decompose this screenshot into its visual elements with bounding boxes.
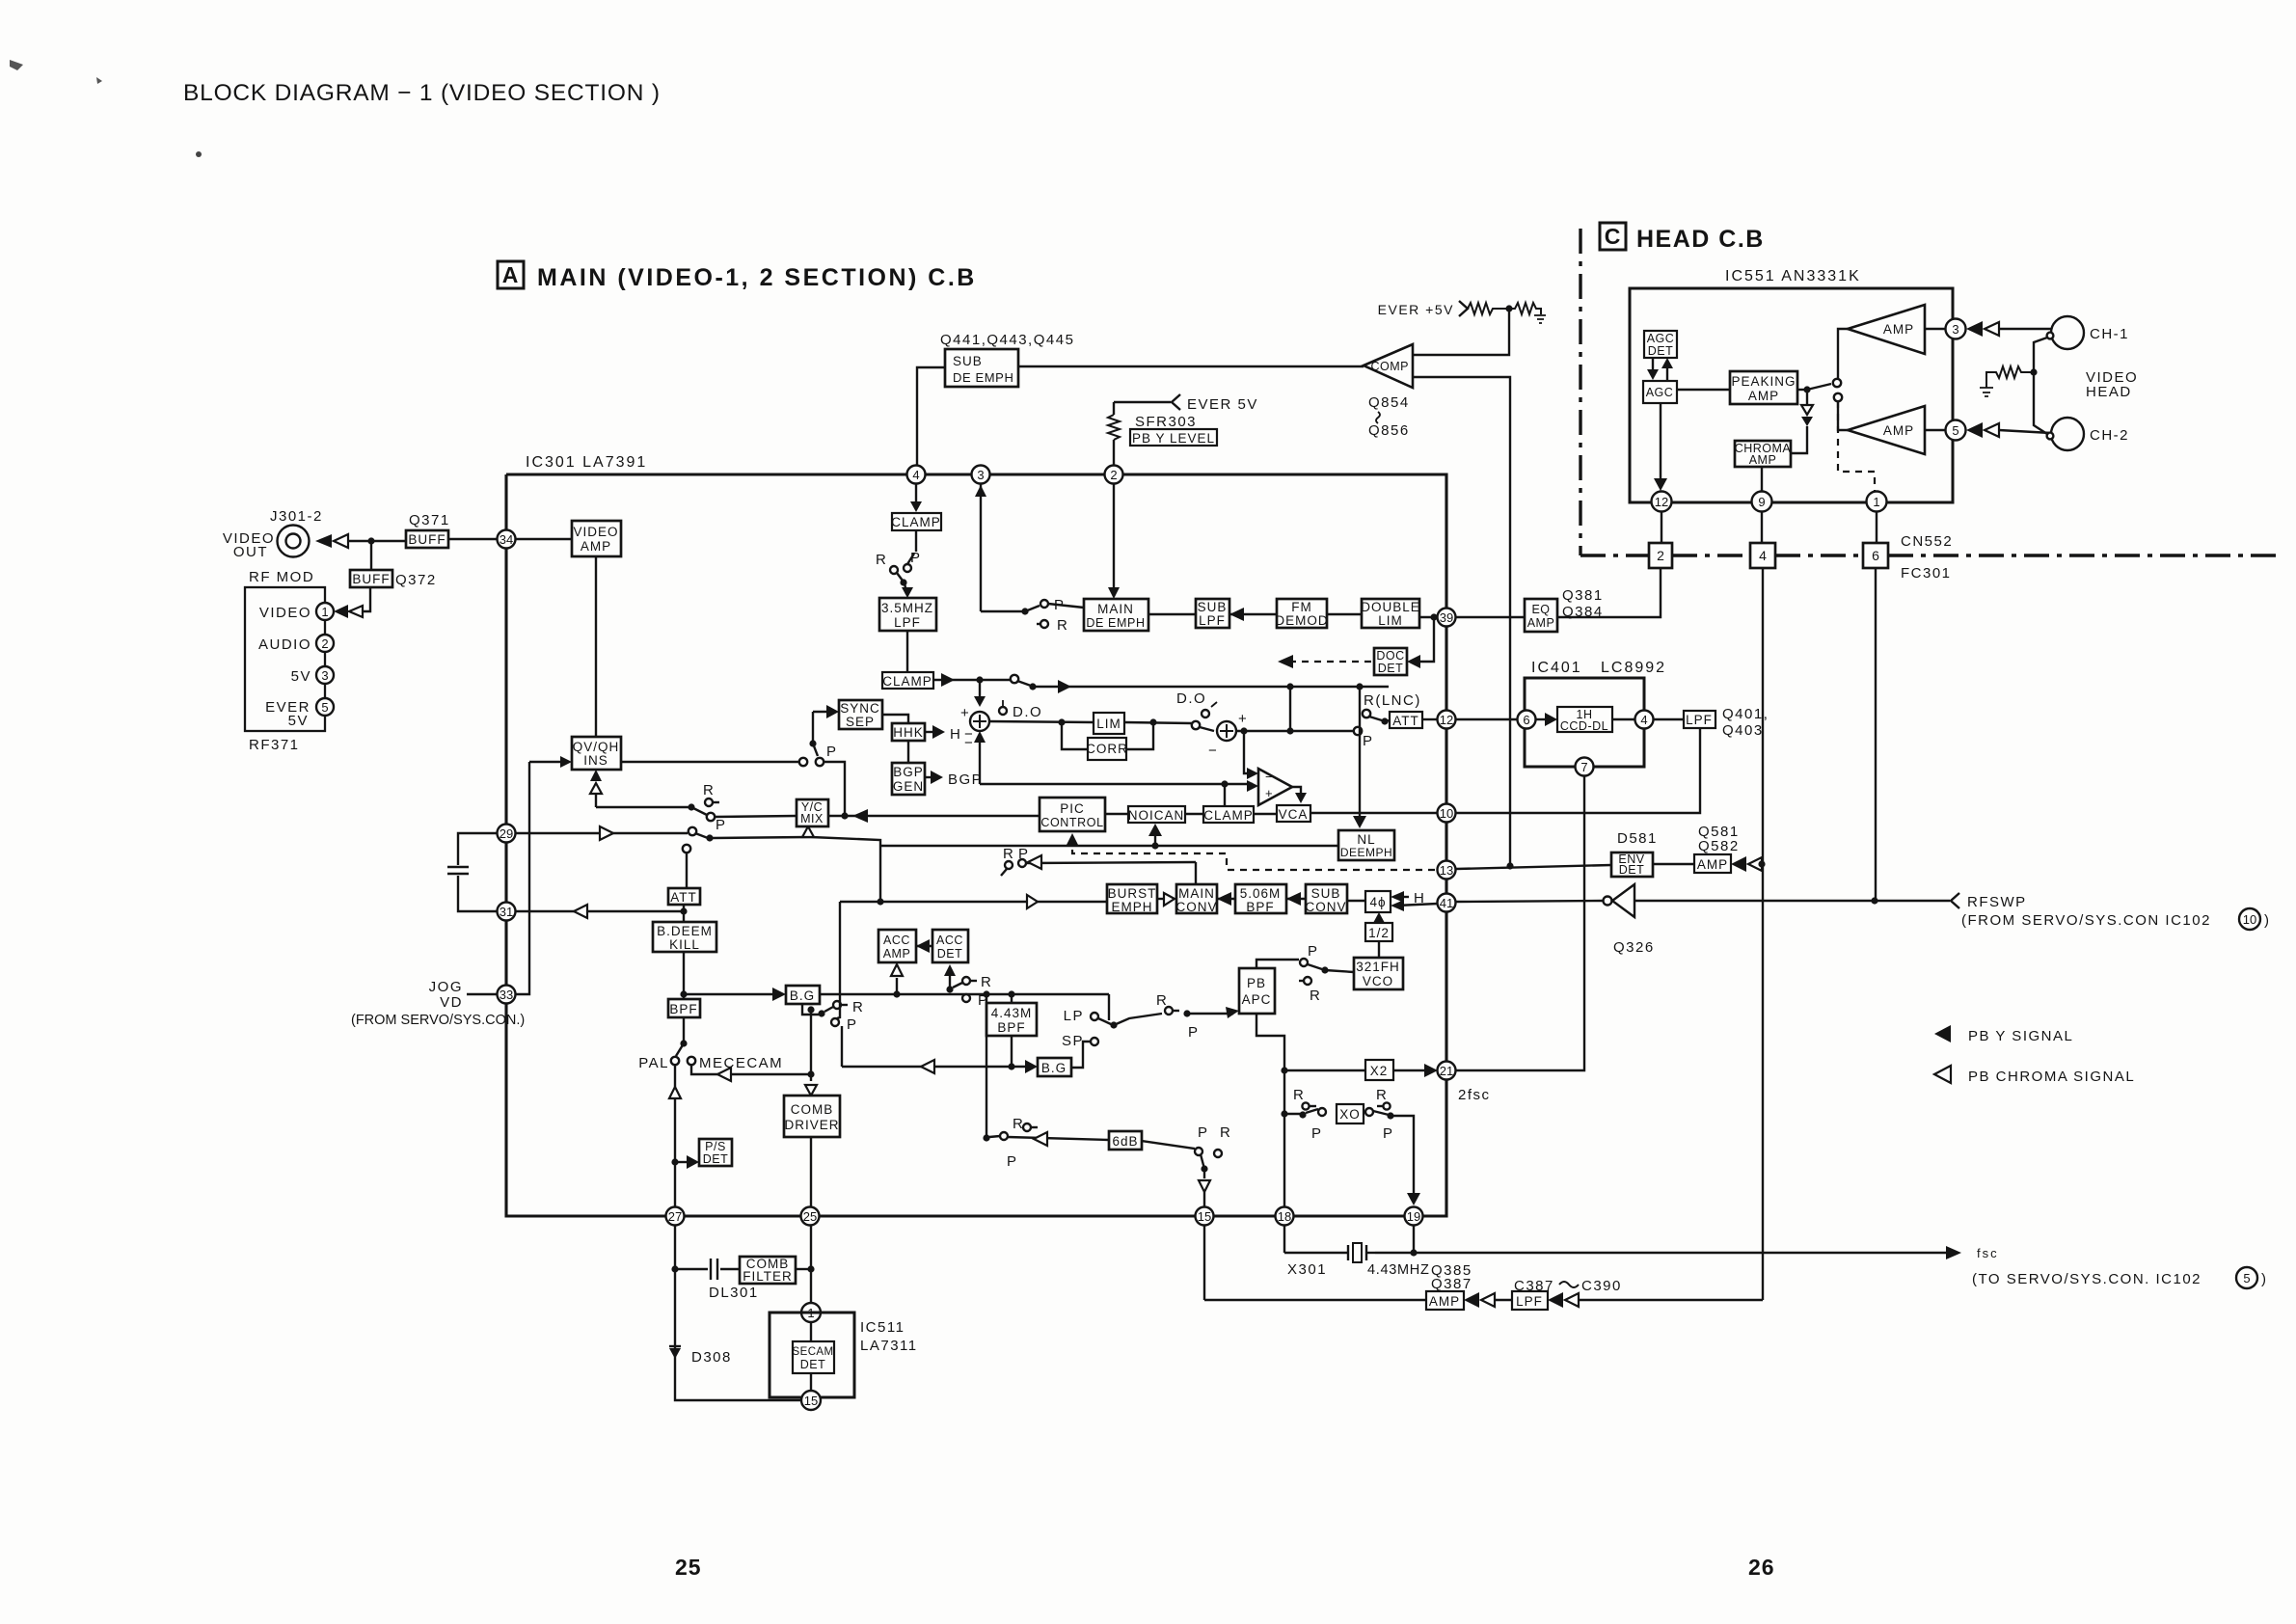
- block LIM: [1094, 713, 1124, 734]
- wire pin12 to IC401 pin6: [1456, 718, 1517, 720]
- chroma line down from 29 switch: [879, 846, 881, 902]
- svg-text:CH-2: CH-2: [2090, 427, 2129, 444]
- svg-text:C390: C390: [1581, 1278, 1622, 1294]
- luma delay line y=813: [980, 783, 1253, 785]
- block AMP (Q581): [1694, 854, 1731, 873]
- IC551 block outline: [1630, 288, 1953, 502]
- block NOICAN: [1128, 806, 1185, 823]
- wire main conv feed: [1026, 862, 1196, 863]
- block 321FH VCO: [1354, 958, 1403, 989]
- svg-text:P: P: [1383, 1125, 1394, 1142]
- svg-text:2: 2: [321, 636, 328, 651]
- block 1H CCD-DL: [1557, 707, 1612, 732]
- block 5.06M BPF: [1235, 884, 1286, 913]
- block CLAMP (pin4): [892, 513, 941, 530]
- diode branch to CHROMA AMP: [1806, 390, 1808, 405]
- block B.DEEM KILL: [653, 922, 716, 952]
- B.G second output path: [1008, 1063, 1014, 1069]
- svg-text:5V: 5V: [288, 713, 309, 729]
- svg-text:ATT: ATT: [670, 890, 697, 905]
- capacitor loop pin29 to pin31: [458, 833, 497, 865]
- IC301 pin 12: [1438, 711, 1456, 729]
- junction node: [367, 537, 374, 544]
- diff amp output to VCA: [1292, 787, 1301, 799]
- wire pin33 jog input: [467, 993, 497, 995]
- svg-text:(FROM SERVO/SYS.CON IC102: (FROM SERVO/SYS.CON IC102: [1961, 912, 2211, 929]
- IC511 block outline: [770, 1313, 854, 1397]
- wire COMB DRIVER to pin25: [810, 1137, 812, 1207]
- wire SECAM DET to pin15: [810, 1373, 812, 1393]
- amplifier AMP CH-2: [1848, 406, 1925, 454]
- block PIC CONTROL: [1040, 798, 1105, 831]
- IC301 pin 31: [498, 903, 516, 921]
- diode D308: [669, 1345, 681, 1347]
- connector J301-2: [278, 526, 310, 557]
- wire XO to pin19: [1391, 1116, 1414, 1201]
- wire to 6dB: [1008, 1137, 1109, 1140]
- wire ATT to pin31 with arrow: [516, 910, 684, 912]
- wire right contact down to Y/C out line: [824, 762, 845, 765]
- svg-text:IC551 AN3331K: IC551 AN3331K: [1725, 268, 1861, 284]
- svg-text:DET: DET: [937, 947, 963, 961]
- H input to 4phi: [1391, 891, 1404, 903]
- arrow ACC DET to ACC AMP: [916, 945, 932, 947]
- svg-text:KILL: KILL: [669, 937, 700, 952]
- wire switch to Y/C MIX bottom triangle: [712, 837, 880, 846]
- svg-text:LA7311: LA7311: [860, 1338, 918, 1354]
- IC551 pin 3: [1925, 328, 1945, 330]
- wire pin19 down to fsc line: [1413, 1225, 1415, 1253]
- svg-text:EMPH: EMPH: [1111, 900, 1152, 914]
- svg-text:IC401: IC401: [1531, 660, 1582, 676]
- IC301 pin 13: [1438, 861, 1456, 880]
- svg-text:Q856: Q856: [1368, 422, 1410, 439]
- block SYNC SEP: [839, 700, 882, 729]
- svg-text:+: +: [1265, 786, 1273, 800]
- capacitor DL301 input: [675, 1268, 708, 1270]
- svg-text:DE EMPH: DE EMPH: [953, 370, 1013, 385]
- wire pin7 down to 2fsc line: [1456, 776, 1584, 1070]
- wire +5V to COMP top input: [1413, 309, 1509, 355]
- svg-text:NOICAN: NOICAN: [1128, 808, 1185, 823]
- block P/S DET: [699, 1139, 732, 1166]
- svg-text:2fsc: 2fsc: [1458, 1087, 1491, 1103]
- svg-text:IC301 LA7391: IC301 LA7391: [526, 454, 647, 471]
- svg-text:−: −: [1208, 743, 1218, 759]
- wire pin33 riser to QV/QH INS: [516, 762, 529, 994]
- svg-text:15: 15: [804, 1394, 818, 1408]
- block XO: [1337, 1104, 1364, 1123]
- svg-text:AMP: AMP: [1697, 857, 1728, 872]
- svg-text:P: P: [1198, 1124, 1209, 1141]
- svg-text:Q854: Q854: [1368, 394, 1410, 411]
- IC301 pin 19: [1405, 1207, 1423, 1226]
- svg-text:AMP: AMP: [1748, 389, 1779, 403]
- svg-text:(FROM SERVO/SYS.CON.): (FROM SERVO/SYS.CON.): [351, 1013, 525, 1028]
- svg-text:13: 13: [1440, 863, 1453, 878]
- svg-text:C: C: [1605, 224, 1621, 249]
- wire 1/2 to 4phi: [1378, 916, 1380, 923]
- wire dropout line right: [1033, 686, 1389, 688]
- svg-text:B.G: B.G: [790, 988, 815, 1003]
- svg-text:DET: DET: [703, 1152, 729, 1166]
- svg-text:1: 1: [1873, 495, 1879, 509]
- svg-text:R: R: [1003, 846, 1014, 862]
- wire LP common to R/P switch to PB APC: [1114, 1014, 1162, 1025]
- IC301 pin 27: [666, 1207, 685, 1226]
- svg-text:PAL: PAL: [638, 1055, 669, 1071]
- double arrow into AMP: [1464, 1292, 1479, 1308]
- svg-text:PB: PB: [1247, 976, 1266, 990]
- svg-text:Q582: Q582: [1698, 838, 1740, 854]
- svg-text:fsc: fsc: [1977, 1246, 1999, 1260]
- IC401 pin 4: [1635, 711, 1654, 729]
- svg-text:5: 5: [321, 700, 328, 715]
- wire P contact to Y/C MIX: [715, 816, 797, 817]
- dashed DOC output arrow: [1289, 661, 1374, 663]
- svg-text:X2: X2: [1370, 1064, 1389, 1078]
- wire pin41 to Q326: [1456, 901, 1603, 902]
- P contact: [831, 1018, 839, 1026]
- svg-text:5.06M: 5.06M: [1240, 886, 1282, 901]
- svg-text:5V: 5V: [291, 668, 311, 685]
- svg-text:BPF: BPF: [997, 1020, 1025, 1035]
- svg-text:1: 1: [321, 605, 328, 619]
- RF MOD pin 2: [316, 635, 334, 652]
- block NL DEEMPH: [1338, 830, 1394, 860]
- open circle above ATT: [683, 845, 690, 853]
- svg-text:CONV: CONV: [1305, 900, 1346, 914]
- wire pin4 to LPF: [1654, 718, 1684, 720]
- dropout switch 2: [1192, 721, 1200, 729]
- svg-text:19: 19: [1407, 1209, 1420, 1224]
- comparator COMP Q854-Q856: [1364, 344, 1413, 388]
- svg-text:DL301: DL301: [709, 1285, 759, 1301]
- B.G bottom to R/P switch: [802, 1004, 819, 1015]
- svg-text:SP: SP: [1062, 1033, 1084, 1049]
- svg-text:PEAKING: PEAKING: [1731, 374, 1796, 389]
- svg-text:HEAD: HEAD: [2086, 384, 2132, 400]
- wire to X2: [1284, 1069, 1365, 1071]
- wire ATT to pin 12: [1422, 718, 1438, 720]
- block BURST EMPH: [1107, 884, 1157, 913]
- wire pin4 down to CLAMP: [915, 484, 917, 508]
- wire to BUFF Q372: [370, 541, 372, 570]
- wire B.DEEM KILL to BPF and B.G: [683, 952, 685, 999]
- RF MOD pin 5: [316, 698, 334, 716]
- block SUB LPF: [1196, 599, 1229, 628]
- svg-text:LIM: LIM: [1096, 717, 1121, 731]
- wire pin1 to SECAM DET: [810, 1322, 812, 1341]
- block AMP Q385: [1426, 1291, 1464, 1310]
- HHK H output: [925, 731, 939, 733]
- wire X2 to pin21: [1393, 1069, 1432, 1071]
- block MAIN DE EMPH: [1084, 599, 1148, 631]
- wire PAL leg down to pin27: [674, 1065, 676, 1087]
- svg-text:Q381: Q381: [1562, 587, 1604, 604]
- svg-text:DE EMPH: DE EMPH: [1086, 616, 1145, 630]
- IC551 pin 5: [1925, 429, 1945, 431]
- svg-text:P/S: P/S: [705, 1140, 726, 1153]
- svg-text:LPF: LPF: [1686, 713, 1713, 727]
- svg-text:ATT: ATT: [1392, 714, 1419, 728]
- PB APC to VCO switch: [1256, 960, 1299, 968]
- block AGC: [1643, 381, 1677, 403]
- svg-text:COMP: COMP: [1371, 360, 1410, 373]
- SYNC SEP source switch: [812, 712, 814, 742]
- svg-text:3.5MHZ: 3.5MHZ: [881, 601, 933, 615]
- dash-dot HEAD boundary vertical: [1579, 229, 1581, 555]
- svg-text:AGC: AGC: [1647, 332, 1675, 345]
- corner down to LP contact: [1108, 994, 1110, 1020]
- block X2: [1365, 1060, 1393, 1080]
- block AGC DET: [1644, 331, 1677, 358]
- svg-text:SECAM: SECAM: [793, 1346, 834, 1358]
- diff amp plus input arrow: [1247, 780, 1258, 792]
- svg-text:9: 9: [1758, 495, 1765, 509]
- wire 6dB to P/R switch above pin15: [1142, 1141, 1195, 1149]
- svg-text:BUFF: BUFF: [408, 532, 446, 547]
- svg-text:4: 4: [1640, 713, 1647, 727]
- svg-text:SUB: SUB: [1311, 886, 1341, 901]
- NL DEEMPH feed line: [880, 845, 1338, 847]
- buffer BUFF Q371: [406, 530, 448, 548]
- wire DOUBLE LIM to pin39: [1419, 616, 1438, 618]
- svg-text:D581: D581: [1617, 830, 1658, 847]
- block ACC AMP: [878, 930, 916, 962]
- IC301 pin 3: [972, 466, 990, 484]
- switch contact open: [689, 827, 696, 835]
- svg-text:NL: NL: [1357, 832, 1375, 847]
- IC401 block outline: [1525, 678, 1644, 767]
- wire Q326 to RFSWP: [1634, 900, 1950, 902]
- wire pin27 down to comb filter and D308: [674, 1225, 676, 1397]
- svg-text:MECECAM: MECECAM: [699, 1055, 783, 1071]
- svg-text:5: 5: [1952, 423, 1958, 438]
- block HHK: [892, 723, 925, 741]
- svg-text:AMP: AMP: [581, 539, 611, 554]
- svg-text:SYNC: SYNC: [840, 701, 880, 716]
- svg-text:+: +: [1238, 711, 1248, 727]
- IC301 pin 33: [498, 986, 516, 1004]
- dash-dot CN552 horizontal: [1580, 554, 1649, 556]
- svg-text:39: 39: [1440, 610, 1453, 625]
- chroma riser to P contact: [837, 902, 840, 1018]
- svg-text:26: 26: [1748, 1555, 1775, 1580]
- block PEAKING AMP: [1730, 371, 1797, 404]
- wire PEAKING AMP to head switch: [1797, 389, 1807, 391]
- svg-text:2: 2: [1657, 548, 1664, 563]
- svg-text:P: P: [826, 744, 838, 760]
- block 6dB: [1109, 1131, 1142, 1150]
- block PB APC: [1239, 968, 1275, 1014]
- summing node 1: [970, 712, 989, 731]
- double arrow into LPF: [1548, 1292, 1563, 1308]
- svg-text:JOG: JOG: [429, 979, 463, 995]
- svg-text:EVER 5V: EVER 5V: [1187, 396, 1258, 413]
- svg-text:BPF: BPF: [1246, 900, 1274, 914]
- svg-text:EVER +5V: EVER +5V: [1378, 302, 1454, 317]
- wire pin13 to ENV DET: [1456, 865, 1611, 869]
- svg-text:10: 10: [2243, 912, 2256, 927]
- pin41 input to 4phi: [1391, 900, 1404, 911]
- amplifier AMP CH-1: [1848, 305, 1925, 354]
- PB APC bottom to pin18 riser: [1256, 1014, 1284, 1207]
- svg-text:4.43M: 4.43M: [991, 1006, 1033, 1020]
- IC301 pin 25: [801, 1207, 820, 1226]
- block LPF C387: [1512, 1291, 1548, 1310]
- section label A box: [498, 261, 524, 288]
- svg-text:LC8992: LC8992: [1601, 660, 1666, 676]
- svg-text:Q387: Q387: [1431, 1276, 1472, 1292]
- wire connector to buffer with double arrow: [315, 534, 332, 548]
- svg-text:X301: X301: [1287, 1261, 1327, 1278]
- wire SYNC SEP to HHK: [882, 715, 908, 723]
- block ATT (luma): [668, 888, 700, 905]
- riser to diff amp minus: [1244, 731, 1250, 773]
- svg-text:H: H: [950, 726, 961, 743]
- svg-text:R: R: [981, 974, 992, 990]
- svg-text:P: P: [1007, 1153, 1018, 1170]
- svg-text:4ϕ: 4ϕ: [1369, 895, 1386, 909]
- block DOUBLE LIM: [1362, 599, 1419, 628]
- svg-text:25: 25: [675, 1555, 702, 1580]
- svg-text:34: 34: [500, 532, 513, 547]
- wire pin34 to VIDEO AMP: [516, 538, 572, 540]
- diff amp: [1258, 769, 1292, 805]
- pin3 feedback riser: [980, 484, 982, 611]
- svg-text:MAIN (VIDEO-1, 2 SECTION) C.B: MAIN (VIDEO-1, 2 SECTION) C.B: [537, 264, 977, 291]
- svg-text:INS: INS: [583, 753, 608, 768]
- legend PB Y SIGNAL: [1934, 1025, 1951, 1042]
- block CORR: [1088, 738, 1126, 760]
- svg-text:25: 25: [803, 1209, 817, 1224]
- svg-text:DET: DET: [1648, 344, 1674, 358]
- wire SUB DE EMPH to pin 4: [917, 367, 945, 466]
- svg-text:APC: APC: [1242, 992, 1272, 1007]
- block SECAM DET: [793, 1341, 834, 1373]
- crystal X301: [1347, 1245, 1349, 1260]
- wire to DOC DET: [1410, 617, 1434, 662]
- svg-text:LPF: LPF: [1516, 1294, 1543, 1309]
- section label C box: [1600, 223, 1626, 250]
- IC551 pin 1: [1867, 492, 1887, 512]
- svg-text:6: 6: [1523, 713, 1529, 727]
- 6dB switch riser: [986, 994, 987, 1138]
- svg-text:P: P: [716, 817, 727, 833]
- svg-text:P: P: [1311, 1125, 1323, 1142]
- RF modulator box RF371: [245, 587, 325, 731]
- svg-text:PB Y LEVEL: PB Y LEVEL: [1132, 431, 1215, 446]
- double arrow into pin5: [1966, 422, 1983, 438]
- svg-text:CONV: CONV: [1175, 900, 1217, 914]
- wire VIDEO AMP to QV/QH INS: [595, 556, 597, 737]
- svg-text:15: 15: [1198, 1209, 1211, 1224]
- block B.G 2: [1038, 1058, 1071, 1076]
- svg-text:): ): [2264, 912, 2271, 929]
- summing1 to LIM/CORR: [989, 721, 1094, 722]
- arrow into MAIN DE EMPH: [1108, 587, 1120, 599]
- svg-text:+: +: [960, 705, 970, 721]
- IC301 pin 15: [1196, 1207, 1214, 1226]
- wire VCA to pin 10: [1310, 812, 1438, 814]
- block COMB DRIVER: [784, 1096, 840, 1137]
- block B.G (burst gate): [786, 986, 820, 1004]
- svg-text:12: 12: [1655, 495, 1668, 509]
- LIM/CORR rejoin: [1124, 722, 1192, 723]
- svg-text:R(LNC): R(LNC): [1364, 692, 1421, 709]
- svg-text:FC301: FC301: [1901, 565, 1952, 582]
- wire pin25 down to IC511: [810, 1225, 812, 1304]
- wire 5.06M BPF to MAIN CONV: [1217, 898, 1235, 900]
- svg-text:4: 4: [1759, 548, 1767, 563]
- svg-text:7: 7: [1580, 760, 1587, 774]
- double arrow into AMP from CN552-4 riser: [1731, 856, 1746, 872]
- block DOC DET: [1374, 648, 1407, 675]
- svg-text:P: P: [1308, 943, 1319, 960]
- svg-text:OUT: OUT: [233, 544, 268, 560]
- svg-text:SUB: SUB: [953, 354, 983, 368]
- svg-text:HEAD C.B: HEAD C.B: [1636, 226, 1765, 253]
- svg-text:−: −: [1265, 770, 1273, 784]
- wire FM DEMOD to SUB LPF with arrow: [1229, 613, 1277, 615]
- scan speck top-left: [10, 60, 102, 84]
- svg-text:CLAMP: CLAMP: [891, 515, 941, 529]
- svg-text:21: 21: [1440, 1064, 1453, 1078]
- IC511 pin 1: [801, 1303, 821, 1322]
- svg-text:R: R: [1293, 1087, 1305, 1103]
- svg-text:): ): [2261, 1271, 2268, 1287]
- svg-text:6dB: 6dB: [1112, 1134, 1138, 1149]
- dashed PIC CONTROL control line to pin13: [1072, 837, 1436, 870]
- junction P switch riser: [841, 812, 848, 819]
- svg-text:VIDEO: VIDEO: [573, 525, 618, 539]
- wire DOUBLE LIM to FM DEMOD: [1327, 613, 1362, 615]
- wire AGC to PEAKING AMP: [1677, 389, 1730, 391]
- resistor R top 1: [1468, 303, 1506, 314]
- svg-text:CLAMP: CLAMP: [882, 674, 932, 689]
- block BPF: [668, 999, 700, 1017]
- svg-text:FILTER: FILTER: [743, 1269, 793, 1284]
- wire pin15 down to AMP LPF row: [1203, 1225, 1205, 1300]
- svg-text:R: R: [703, 782, 715, 798]
- svg-text:33: 33: [500, 988, 513, 1002]
- summing1 lower input riser: [974, 731, 986, 743]
- svg-text:P: P: [1188, 1024, 1200, 1041]
- wire CN552-4 riser down to LPF AMP row: [1762, 568, 1764, 1300]
- svg-text:DEMOD: DEMOD: [1275, 613, 1328, 628]
- svg-text:FM: FM: [1291, 600, 1312, 614]
- wire to ATT: [1385, 720, 1390, 721]
- IC301 pin 21: [1438, 1062, 1456, 1080]
- wire D308 leg to IC511 pin15: [675, 1397, 801, 1400]
- open arrow BURST EMPH to MAIN CONV: [1164, 893, 1175, 906]
- connector CN552 pin 6: [1863, 543, 1888, 568]
- svg-text:6: 6: [1872, 548, 1879, 563]
- wire CCD to pin4: [1612, 718, 1634, 720]
- svg-text:VCO: VCO: [1363, 974, 1393, 988]
- svg-text:5: 5: [2243, 1271, 2250, 1286]
- wire top amp apex to contact: [1838, 329, 1848, 379]
- svg-text:Q371: Q371: [409, 512, 450, 528]
- svg-text:CN552: CN552: [1901, 533, 1953, 550]
- buffer BUFF Q372: [350, 570, 392, 587]
- head switch contacts: [1833, 379, 1841, 387]
- svg-text:MAIN: MAIN: [1097, 602, 1134, 616]
- svg-text:3: 3: [1952, 322, 1958, 337]
- wire COMB FILTER to pin25 riser: [796, 1268, 811, 1270]
- svg-text:R: R: [1376, 1087, 1388, 1103]
